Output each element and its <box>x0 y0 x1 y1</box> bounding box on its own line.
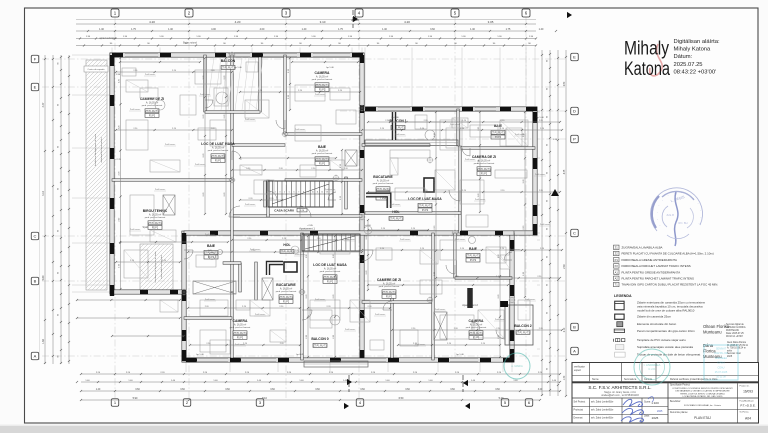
svg-text:4.47: 4.47 <box>42 102 45 107</box>
svg-text:ZT P1 RU T1: ZT P1 RU T1 <box>382 292 396 294</box>
svg-text:Profil inoxes: Profil inoxes <box>495 318 505 321</box>
svg-text:PLINTA PENTRU PARCHET LAMINAT: PLINTA PENTRU PARCHET LAMINAT TRAFIC INT… <box>622 277 695 281</box>
svg-text:5: 5 <box>289 192 290 194</box>
svg-text:3.60: 3.60 <box>360 389 365 391</box>
svg-text:4.20: 4.20 <box>149 20 155 24</box>
svg-text:Profil inoxes: Profil inoxes <box>465 158 475 161</box>
svg-text:4.00: 4.00 <box>260 28 265 31</box>
svg-text:expert: expert <box>574 369 581 372</box>
svg-text:1.40: 1.40 <box>99 28 104 31</box>
svg-text:A. MARIA: A. MARIA <box>511 364 523 368</box>
svg-text:ZT P1 RU T1: ZT P1 RU T1 <box>469 333 483 335</box>
svg-text:Data: 2025.07.25: Data: 2025.07.25 <box>726 332 744 335</box>
svg-text:B: B <box>34 278 37 283</box>
svg-text:A: A <box>573 348 576 353</box>
svg-text:Sc.Plansa: Sc.Plansa <box>740 412 750 414</box>
svg-text:2: 2 <box>275 192 276 194</box>
svg-text:PARDOSEALA GRESIE ANTIDERAPANT: PARDOSEALA GRESIE ANTIDERAPANTA <box>622 258 677 262</box>
svg-text:P1 P2: P1 P2 <box>495 137 502 139</box>
svg-text:CAMERE DE ZI: CAMERE DE ZI <box>140 97 164 101</box>
svg-text:Sef Proiect: Sef Proiect <box>574 401 586 404</box>
svg-text:Profil inoxes: Profil inoxes <box>535 173 545 176</box>
svg-text:subansamblu asemanator: subansamblu asemanator <box>160 255 163 279</box>
svg-text:3.60: 3.60 <box>180 389 185 391</box>
svg-text:Profil inoxes: Profil inoxes <box>315 298 325 301</box>
svg-text:Semnat: trust: Semnat: trust <box>727 352 741 355</box>
svg-text:3.10: 3.10 <box>320 20 326 24</box>
svg-text:3.60: 3.60 <box>405 389 410 391</box>
svg-text:CAMERA: CAMERA <box>469 319 484 323</box>
svg-text:ZT P1 RU T1: ZT P1 RU T1 <box>389 218 403 220</box>
svg-text:ZT P1 RU T1: ZT P1 RU T1 <box>491 132 505 134</box>
svg-text:3.60: 3.60 <box>430 28 435 31</box>
svg-text:Profil inoxes: Profil inoxes <box>435 308 445 311</box>
svg-text:pard. parchet laminat: pard. parchet laminat <box>466 326 487 329</box>
svg-text:Tamplarie de PVC culoare steja: Tamplarie de PVC culoare stejar auriu <box>637 338 686 342</box>
svg-text:1.40: 1.40 <box>382 28 387 31</box>
svg-text:CAMERA: CAMERA <box>315 71 330 75</box>
svg-text:hp 0.90: hp 0.90 <box>391 117 399 119</box>
svg-text:·: · <box>681 190 682 195</box>
svg-text:P1 P2: P1 P2 <box>422 210 429 212</box>
svg-text:DIN SANATATE (2 UNITATI LOCATI: DIN SANATATE (2 UNITATI LOCATIVE) SI IMP… <box>675 390 730 393</box>
svg-text:Profil inoxes: Profil inoxes <box>245 203 255 206</box>
svg-text:Beneficiar:: Beneficiar: <box>670 400 681 403</box>
svg-text:hp 1.40: hp 1.40 <box>234 67 242 69</box>
svg-text:3: 3 <box>279 192 280 194</box>
svg-text:ZT P1 RU T1: ZT P1 RU T1 <box>148 223 162 225</box>
svg-text:5.80: 5.80 <box>42 275 45 280</box>
svg-text:1.75: 1.75 <box>506 28 511 31</box>
svg-text:A: 16,35 m²: A: 16,35 m² <box>316 149 329 152</box>
svg-text:S.C. F.S.V. ARHITECTS S.R.L.: S.C. F.S.V. ARHITECTS S.R.L. <box>588 385 651 390</box>
svg-text:arh. Zabó Lenke/Ede: arh. Zabó Lenke/Ede <box>591 401 614 404</box>
svg-text:CASA SCARII: CASA SCARII <box>274 209 294 213</box>
svg-text:Proiect nr.: Proiect nr. <box>740 385 750 388</box>
svg-text:C: C <box>573 230 576 235</box>
svg-text:4.10: 4.10 <box>42 191 45 196</box>
svg-text:Semnatura: Semnatura <box>624 378 637 381</box>
svg-text:ZT P1 RU T1: ZT P1 RU T1 <box>145 111 159 113</box>
svg-text:2.10: 2.10 <box>564 327 566 332</box>
svg-text:2025: 2025 <box>657 410 663 413</box>
svg-text:3.60: 3.60 <box>450 389 455 391</box>
svg-text:B: B <box>573 324 576 329</box>
svg-text:PLINTA PENTRU GRESIE ANTIDERAP: PLINTA PENTRU GRESIE ANTIDERAPANTA <box>622 270 681 274</box>
svg-text:MUNTEANU: MUNTEANU <box>726 329 739 332</box>
svg-text:Profil inoxes: Profil inoxes <box>450 123 460 126</box>
svg-text:Profil inoxes: Profil inoxes <box>205 298 215 301</box>
svg-text:aprēd verticigrat: aprēd verticigrat <box>99 37 116 40</box>
svg-text:1.75: 1.75 <box>131 28 136 31</box>
svg-text:Profil inoxes: Profil inoxes <box>325 188 335 191</box>
svg-text:pard. parchet laminat: pard. parchet laminat <box>474 162 495 165</box>
svg-text:Profil inoxes: Profil inoxes <box>195 163 205 166</box>
svg-text:C: C <box>34 233 37 238</box>
svg-text:·: · <box>656 210 657 215</box>
svg-text:pard. parchet laminat: pard. parchet laminat <box>230 326 251 329</box>
svg-text:hp 1.40: hp 1.40 <box>196 354 204 356</box>
svg-text:3.05: 3.05 <box>488 20 494 24</box>
svg-text:Scara:: Scara: <box>644 401 651 404</box>
svg-text:ZT P1 RU T1: ZT P1 RU T1 <box>233 333 247 335</box>
svg-text:RO. BH: RO. BH <box>679 221 688 225</box>
svg-text:1.40: 1.40 <box>539 28 544 31</box>
svg-text:A: 16,35 m²: A: 16,35 m² <box>212 146 225 149</box>
svg-text:P1 P2: P1 P2 <box>149 115 156 117</box>
svg-text:Invelitoare din tigla puse de: Invelitoare din tigla puse de toate <box>94 133 97 166</box>
svg-text:PARDOSEALA PARCHET LAMINAT TRA: PARDOSEALA PARCHET LAMINAT TRAFIC INTENS <box>622 264 691 268</box>
svg-text:ZUGRAVEALA LAVABILA ALBA: ZUGRAVEALA LAVABILA ALBA <box>622 246 663 250</box>
svg-text:P.T.+D.D.E.: P.T.+D.D.E. <box>740 404 756 408</box>
svg-text:Dána: Dána <box>703 343 714 348</box>
svg-text:2025: 2025 <box>727 356 733 358</box>
svg-text:6.50: 6.50 <box>399 397 404 400</box>
svg-text:Data:: Data: <box>644 415 650 418</box>
svg-text:I. ANDREEA: I. ANDREEA <box>644 363 661 367</box>
svg-text:Faza/Modificare: Faza/Modificare <box>740 401 755 403</box>
svg-text:A: A <box>34 353 37 358</box>
svg-text:OLTEAN FLORIKA: OLTEAN FLORIKA <box>726 326 746 329</box>
svg-text:LOC DE LUAT MASA: LOC DE LUAT MASA <box>313 263 347 267</box>
svg-text:2025: 2025 <box>652 416 659 420</box>
svg-text:HOL: HOL <box>392 210 399 214</box>
svg-text:09:02:14 +03'00': 09:02:14 +03'00' <box>726 336 743 338</box>
svg-text:SEMNAT: SEMNAT <box>716 348 727 351</box>
svg-text:Mihaly Katona: Mihaly Katona <box>674 47 712 53</box>
svg-text:·: · <box>697 201 698 206</box>
svg-text:A: 16,35 m²: A: 16,35 m² <box>324 267 337 270</box>
svg-text:·: · <box>698 221 699 226</box>
svg-text:Dátum:: Dátum: <box>674 54 693 60</box>
svg-text:pard. parchet laminat: pard. parchet laminat <box>208 149 229 152</box>
svg-text:P1 P2: P1 P2 <box>470 260 477 262</box>
svg-text:Atest Dána Florica: Atest Dána Florica <box>727 341 747 344</box>
svg-text:Profil inoxes: Profil inoxes <box>245 118 255 121</box>
svg-text:Profil inoxes: Profil inoxes <box>515 133 525 136</box>
svg-text:pard. parchet laminat: pard. parchet laminat <box>312 152 333 155</box>
svg-text:13: 13 <box>326 192 328 194</box>
svg-text:E: E <box>573 54 576 59</box>
svg-text:Profil inoxes: Profil inoxes <box>130 228 140 231</box>
svg-text:Proiectat: Proiectat <box>574 409 584 412</box>
svg-text:1.40: 1.40 <box>302 28 307 31</box>
svg-text:pard. parchet laminat: pard. parchet laminat <box>320 270 341 273</box>
svg-text:A04: A04 <box>745 417 751 421</box>
svg-text:BUCATARIE: BUCATARIE <box>276 283 296 287</box>
svg-text:P1 P2: P1 P2 <box>481 173 488 175</box>
svg-text:Profil inoxes: Profil inoxes <box>400 238 410 241</box>
svg-text:BAIE: BAIE <box>207 244 216 248</box>
svg-text:+2.70: +2.70 <box>115 159 121 161</box>
svg-text:1: 1 <box>270 192 271 194</box>
svg-text:Elemente structurale din beton: Elemente structurale din beton <box>637 322 677 326</box>
svg-text:Profil inoxes: Profil inoxes <box>315 93 325 96</box>
svg-text:CEAU: CEAU <box>718 366 725 369</box>
svg-text:A2: A2 <box>615 277 619 281</box>
svg-text:Zidarie din caramida 25cm: Zidarie din caramida 25cm <box>637 315 672 319</box>
svg-text:ZT P1 RU T1: ZT P1 RU T1 <box>279 297 293 299</box>
svg-text:TAVAN DIN GIPS CARTON DUBLU PL: TAVAN DIN GIPS CARTON DUBLU PLACAT REZIS… <box>622 283 719 287</box>
svg-text:10:11:08: 10:11:08 <box>716 376 726 379</box>
svg-text:Profil inoxes: Profil inoxes <box>395 133 405 136</box>
svg-text:Profil inoxes: Profil inoxes <box>390 203 400 206</box>
svg-text:hp 1.40: hp 1.40 <box>326 67 334 69</box>
svg-text:P1 P2: P1 P2 <box>215 160 222 162</box>
svg-text:pard. parchet laminat: pard. parchet laminat <box>145 216 166 219</box>
svg-text:Profil inoxes: Profil inoxes <box>295 128 305 131</box>
svg-text:6: 6 <box>294 192 295 194</box>
svg-text:A: 16,35 m²: A: 16,35 m² <box>280 287 293 290</box>
svg-text:Profil inoxes: Profil inoxes <box>345 238 355 241</box>
svg-text:Profil inoxes: Profil inoxes <box>205 233 215 236</box>
svg-text:2.80: 2.80 <box>564 81 566 86</box>
svg-text:pard. parchet laminat: pard. parchet laminat <box>379 285 400 288</box>
svg-text:JUL 8: JUL 8 <box>666 213 674 217</box>
svg-text:Profil inoxes: Profil inoxes <box>525 298 535 301</box>
svg-text:12: 12 <box>321 192 323 194</box>
svg-text:ZT P1 RU T1: ZT P1 RU T1 <box>323 277 337 279</box>
svg-text:Desenat: Desenat <box>574 417 583 420</box>
svg-text:P1 P2: P1 P2 <box>152 227 159 229</box>
svg-text:5.90: 5.90 <box>133 397 138 400</box>
svg-text:7: 7 <box>298 192 299 194</box>
svg-text:1.40: 1.40 <box>470 28 475 31</box>
svg-text:1.30: 1.30 <box>564 375 566 380</box>
svg-text:ZT P1 RU T1: ZT P1 RU T1 <box>466 255 480 257</box>
svg-text:oradea@arh.com , tel:0745/0911: oradea@arh.com , tel:0745/091103 <box>601 394 639 397</box>
svg-text:P: P <box>573 136 576 141</box>
svg-text:CONSTRUIRE LOCUINTA DE SERVICI: CONSTRUIRE LOCUINTA DE SERVICIU PENTRU S… <box>672 387 733 390</box>
svg-text:25.07.2025: 25.07.2025 <box>715 371 728 374</box>
svg-text:HOL: HOL <box>283 243 290 247</box>
svg-text:T LS5: T LS5 <box>380 198 387 200</box>
svg-text:subansamblu asemanator: subansamblu asemanator <box>100 137 103 162</box>
svg-text:Katona: Katona <box>624 59 670 80</box>
svg-text:10: 10 <box>312 192 314 194</box>
svg-text:Profil inoxes: Profil inoxes <box>165 143 175 146</box>
svg-text:Profil inoxes: Profil inoxes <box>235 343 245 346</box>
svg-text:Specificatie Proiect:: Specificatie Proiect: <box>670 384 691 387</box>
svg-text:Profil inoxes: Profil inoxes <box>250 248 260 251</box>
svg-text:ANDREEA: ANDREEA <box>715 357 727 360</box>
svg-text:pard. parchet laminat: pard. parchet laminat <box>373 182 394 185</box>
svg-text:3.60: 3.60 <box>495 389 500 391</box>
svg-text:CAMERA DE ZI: CAMERA DE ZI <box>472 155 496 159</box>
svg-text:·: · <box>658 203 659 208</box>
svg-text:BIROU TEHNIC: BIROU TEHNIC <box>143 209 168 213</box>
svg-text:Profil inoxes: Profil inoxes <box>200 93 210 96</box>
svg-text:ZT P1 RU T1: ZT P1 RU T1 <box>516 332 530 334</box>
svg-text:·: · <box>659 223 660 228</box>
svg-text:Profil inoxes: Profil inoxes <box>475 198 485 201</box>
svg-text:3.60: 3.60 <box>315 389 320 391</box>
svg-text:PLAN ETAJ: PLAN ETAJ <box>694 416 711 420</box>
svg-text:BAIE: BAIE <box>469 247 478 251</box>
svg-text:IOANA: IOANA <box>717 362 725 365</box>
svg-text:hp 1.40: hp 1.40 <box>456 354 464 356</box>
svg-text:4.00: 4.00 <box>211 28 216 31</box>
svg-text:FODORAN DORU-MIHAI, loc. Cetar: FODORAN DORU-MIHAI, loc. Cetariu <box>684 404 722 407</box>
svg-text:·: · <box>657 217 658 222</box>
svg-text:ZT P1 RU T1: ZT P1 RU T1 <box>315 159 329 161</box>
svg-text:arh. Zabó Lenke/Ede: arh. Zabó Lenke/Ede <box>591 409 614 412</box>
svg-text:A: 758 10:58:24 m: A: 758 10:58:24 m <box>727 347 746 350</box>
svg-text:C.U.R.: C.U.R. <box>648 368 656 371</box>
svg-text:Profil inoxes: Profil inoxes <box>155 188 165 191</box>
svg-text:Munteanu: Munteanu <box>703 330 722 335</box>
svg-text:Invelitoare din tigla puse din: Invelitoare din tigla puse din toate <box>154 251 157 283</box>
svg-text:P1: P1 <box>615 258 619 262</box>
svg-text:CAMERE DE ZI: CAMERE DE ZI <box>377 278 401 282</box>
svg-text:1.40: 1.40 <box>168 28 173 31</box>
svg-text:TEREN, JUDETUL BIHOR, COMUNA C: TEREN, JUDETUL BIHOR, COMUNA CETARIU, <box>680 392 725 395</box>
svg-text:3.60: 3.60 <box>135 389 140 391</box>
svg-text:P1 P2: P1 P2 <box>319 163 326 165</box>
svg-text:Denumire planse:: Denumire planse: <box>670 411 688 414</box>
svg-text:4.20: 4.20 <box>235 20 241 24</box>
svg-text:Mihaly: Mihaly <box>624 39 669 60</box>
svg-text:1.40: 1.40 <box>96 389 101 391</box>
svg-text:arh. Zabó Lenke/Ede: arh. Zabó Lenke/Ede <box>591 417 614 420</box>
svg-text:Profil inoxes: Profil inoxes <box>415 343 425 346</box>
svg-text:·: · <box>662 197 663 202</box>
svg-text:A: 16,35 m²: A: 16,35 m² <box>234 323 247 326</box>
svg-text:5.20: 5.20 <box>499 397 504 400</box>
svg-text:ZT P1 RU T1: ZT P1 RU T1 <box>418 205 432 207</box>
svg-text:hp 0.45: hp 0.45 <box>296 354 304 356</box>
svg-text:ZT P1 RU T1: ZT P1 RU T1 <box>477 169 491 171</box>
svg-text:A: 16,35 m²: A: 16,35 m² <box>316 75 329 78</box>
svg-text:A: 16,35 m²: A: 16,35 m² <box>377 179 390 182</box>
svg-text:Profil inoxes: Profil inoxes <box>295 253 305 256</box>
svg-text:1.75: 1.75 <box>338 28 343 31</box>
svg-text:ZT P1 RU T1: ZT P1 RU T1 <box>221 67 235 69</box>
svg-text:BALCON 2: BALCON 2 <box>514 324 531 328</box>
svg-text:Profil inoxes: Profil inoxes <box>425 198 435 201</box>
svg-text:·: · <box>667 193 668 198</box>
svg-text:Carter de zapada: Carter de zapada <box>88 68 106 71</box>
svg-text:16/093: 16/093 <box>743 390 753 394</box>
svg-text:8.10: 8.10 <box>262 397 267 400</box>
svg-text:4.35: 4.35 <box>564 169 566 174</box>
svg-text:Profil inoxes: Profil inoxes <box>375 313 385 316</box>
svg-text:P1 P2: P1 P2 <box>237 337 244 339</box>
svg-text:BALCON 0: BALCON 0 <box>311 337 328 341</box>
svg-text:2025.07.25: 2025.07.25 <box>674 62 703 68</box>
svg-text:4.20: 4.20 <box>404 20 410 24</box>
svg-text:±0.00: ±0.00 <box>365 225 371 227</box>
svg-text:PERETI PLACATI CU FAIANTA DE C: PERETI PLACATI CU FAIANTA DE CULOARE ALB… <box>622 252 714 256</box>
svg-text:Profil inoxes: Profil inoxes <box>540 223 550 226</box>
svg-text:LOCALITATEA CETARIU, NR. CAD.: LOCALITATEA CETARIU, NR. CAD. 50695 <box>683 395 724 398</box>
svg-text:Suprafata amenajare uscata: al: Suprafata amenajare uscata: alee pietona… <box>637 345 693 349</box>
svg-text:LOC DE LUAT MASA: LOC DE LUAT MASA <box>201 142 235 146</box>
svg-text:Profil inoxes: Profil inoxes <box>255 313 265 316</box>
svg-text:E: E <box>34 84 37 89</box>
svg-text:pard. parchet laminat: pard. parchet laminat <box>142 104 163 107</box>
svg-text:A: 16,35 m²: A: 16,35 m² <box>470 323 483 326</box>
svg-text:LEGENDA: LEGENDA <box>614 294 632 298</box>
svg-text:BUCATARIE: BUCATARIE <box>373 175 393 179</box>
svg-text:11: 11 <box>317 192 319 194</box>
svg-text:Profil inoxes: Profil inoxes <box>455 238 465 241</box>
svg-text:arhiv: arhiv <box>727 349 733 352</box>
svg-text:D: D <box>573 108 576 113</box>
svg-text:Profil inoxes: Profil inoxes <box>145 73 155 76</box>
svg-text:P2: P2 <box>615 264 619 268</box>
svg-text:CAMERA: CAMERA <box>233 319 248 323</box>
svg-text:BALCON: BALCON <box>221 59 236 63</box>
svg-text:Referat verificare proiect/Exp: Referat verificare proiect/Expertiza nr.… <box>670 378 718 381</box>
svg-text:2.40: 2.40 <box>564 264 566 269</box>
svg-text:Semnat digital de: Semnat digital de <box>726 323 744 326</box>
svg-text:3.60: 3.60 <box>225 389 230 391</box>
svg-text:·: · <box>674 190 675 195</box>
svg-text:pard. parchet laminat: pard. parchet laminat <box>276 290 297 293</box>
svg-text:Profil inoxes: Profil inoxes <box>345 328 355 331</box>
svg-text:hp 1.40: hp 1.40 <box>536 117 544 119</box>
svg-text:Profil inoxes: Profil inoxes <box>510 248 520 251</box>
svg-text:·: · <box>693 196 694 201</box>
svg-text:Nume: Nume <box>592 378 599 381</box>
svg-text:3.60: 3.60 <box>270 389 275 391</box>
svg-text:A: 16,35 m²: A: 16,35 m² <box>149 213 162 216</box>
svg-text:+2.85: +2.85 <box>307 225 313 227</box>
svg-text:P1 P2: P1 P2 <box>327 281 334 283</box>
svg-text:Butan rotund: Butan rotund <box>183 42 197 45</box>
svg-text:·: · <box>700 207 701 212</box>
svg-text:P1 P2: P1 P2 <box>386 296 393 298</box>
svg-text:1.60: 1.60 <box>42 339 45 344</box>
svg-text:P1 P2: P1 P2 <box>283 301 290 303</box>
svg-text:08:43:22 +03'00': 08:43:22 +03'00' <box>674 69 717 75</box>
svg-text:pard. parchet laminat: pard. parchet laminat <box>312 78 333 81</box>
svg-text:Apartament 1: Apartament 1 <box>299 227 315 231</box>
svg-text:DIGITAL DE: DIGITAL DE <box>714 352 728 355</box>
svg-text:BAIE: BAIE <box>318 145 327 149</box>
svg-text:·: · <box>687 192 688 197</box>
svg-text:Profil inoxes: Profil inoxes <box>130 108 140 111</box>
svg-text:·: · <box>700 214 701 219</box>
svg-text:ZT P1 RU T1: ZT P1 RU T1 <box>313 345 327 347</box>
svg-text:Digitálisan aláírta:: Digitálisan aláírta: <box>674 39 720 45</box>
svg-text:model bob de orez de culoare a: model bob de orez de culoare alba RAL901… <box>637 309 695 313</box>
svg-text:Pereti compartimentare din gip: Pereti compartimentare din gips-carton 1… <box>637 329 695 333</box>
svg-text:9: 9 <box>308 192 309 194</box>
svg-text:A1: A1 <box>615 270 619 274</box>
svg-text:4: 4 <box>284 192 285 194</box>
